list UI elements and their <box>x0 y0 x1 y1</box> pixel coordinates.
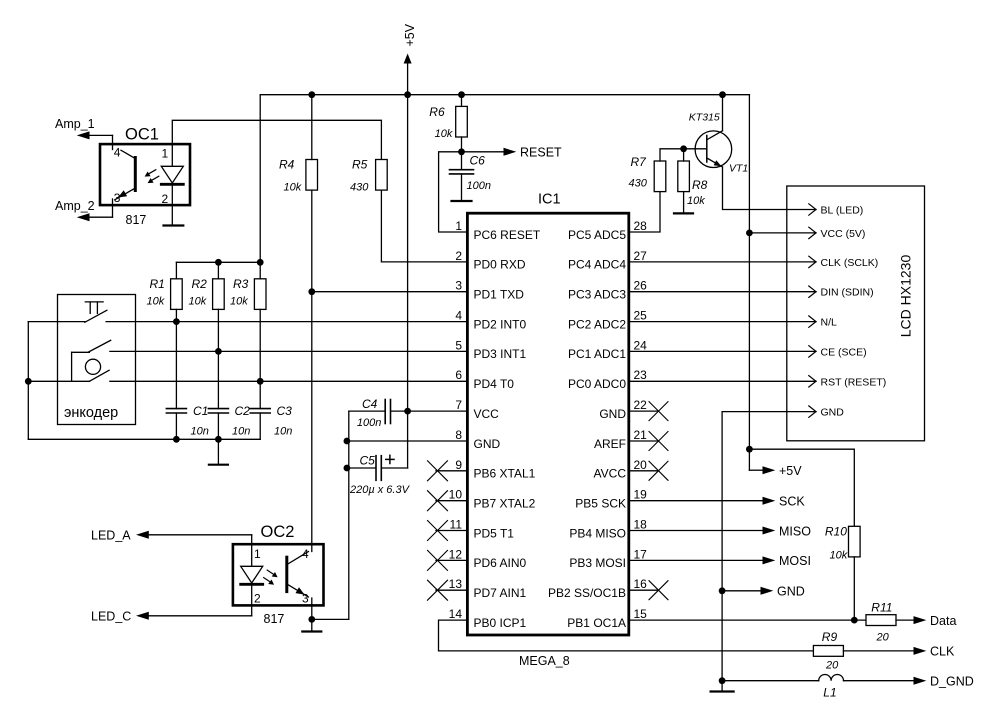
wire OC2 pin2 down to LED_C <box>251 585 253 616</box>
wire R4 column (rail to OC2 pin4) <box>311 95 313 552</box>
resistor R7 <box>654 161 666 192</box>
svg-text:R3: R3 <box>233 277 249 291</box>
svg-text:22: 22 <box>634 398 648 412</box>
svg-text:12: 12 <box>449 547 463 561</box>
wire OC2 pin3 to ground junction <box>312 598 349 619</box>
resistor R11 <box>866 615 896 626</box>
svg-text:26: 26 <box>634 279 648 293</box>
wire RESET node to IC pin1 <box>439 152 468 232</box>
IC1 pin 12 PD6 AIN0 <box>428 547 527 570</box>
wire R6 bottom to RESET node <box>461 137 463 152</box>
IC1 pin 17 PB3 MOSI <box>569 547 647 570</box>
svg-text:10k: 10k <box>687 195 705 207</box>
svg-text:1: 1 <box>162 147 169 161</box>
wire R4 bottom junction to IC pin3 <box>312 291 468 293</box>
svg-text:2: 2 <box>162 192 169 206</box>
wire encoder contact B row to IC pin6 <box>110 380 468 382</box>
svg-text:VCC (5V): VCC (5V) <box>821 228 866 240</box>
IC1 pin 23 PC0 ADC0 <box>568 368 647 391</box>
svg-text:RESET: RESET <box>520 146 562 160</box>
wire LCD GND to ground column <box>722 411 816 413</box>
wire C4 left lead down to GND column <box>348 411 350 619</box>
svg-text:10k: 10k <box>284 182 302 194</box>
svg-text:10k: 10k <box>147 296 165 308</box>
node CLK <box>843 645 955 659</box>
IC1 pin 7 VCC <box>455 398 499 421</box>
svg-text:Data: Data <box>930 614 956 628</box>
wire OC1 pin1 up and right to R5 top <box>172 120 381 166</box>
svg-text:100n: 100n <box>467 180 491 192</box>
svg-text:PB1 OC1A: PB1 OC1A <box>567 616 626 630</box>
svg-text:PC2 ADC2: PC2 ADC2 <box>568 317 626 331</box>
svg-text:PC1 ADC1: PC1 ADC1 <box>568 347 626 361</box>
wire D_GND line left <box>722 680 819 682</box>
OC1 phototransistor <box>115 150 136 200</box>
svg-text:C3: C3 <box>277 404 293 418</box>
svg-text:20: 20 <box>876 632 890 644</box>
svg-text:R10: R10 <box>825 525 847 539</box>
svg-text:817: 817 <box>264 612 285 626</box>
svg-text:5: 5 <box>455 338 462 352</box>
wire IC pin24 to LCD CE <box>629 350 816 352</box>
wire encoder ground row y=439.3 <box>28 438 260 440</box>
IC1 pin 21 AREF <box>594 428 668 451</box>
resistor R9 <box>813 646 843 657</box>
wire left ground column x=28.3 <box>27 322 29 440</box>
svg-text:R4: R4 <box>279 158 295 172</box>
svg-text:PD1 TXD: PD1 TXD <box>474 288 525 302</box>
svg-text:C2: C2 <box>235 404 251 418</box>
node Data <box>896 614 956 628</box>
IC1 pin 10 PB7 XTAL2 <box>428 488 536 511</box>
svg-text:R6: R6 <box>429 105 445 119</box>
svg-text:13: 13 <box>449 577 463 591</box>
svg-text:20: 20 <box>634 458 648 472</box>
svg-text:16: 16 <box>634 577 648 591</box>
wire IC pin8 GND row <box>347 440 468 442</box>
resistor R2 <box>213 279 225 310</box>
svg-text:GND: GND <box>474 437 501 451</box>
svg-text:PD6 AIN0: PD6 AIN0 <box>474 556 527 570</box>
svg-text:27: 27 <box>634 249 648 263</box>
svg-text:AREF: AREF <box>594 437 626 451</box>
svg-text:23: 23 <box>634 368 648 382</box>
wire R2 column <box>217 262 219 439</box>
svg-text:PB7 XTAL2: PB7 XTAL2 <box>474 497 536 511</box>
node MOSI <box>629 554 811 568</box>
svg-text:BL (LED): BL (LED) <box>821 205 864 217</box>
IC1 pin 3 PD1 TXD <box>455 279 524 302</box>
svg-text:PB4 MISO: PB4 MISO <box>569 526 626 540</box>
svg-text:VT1: VT1 <box>729 163 748 175</box>
encoder push-button contact <box>85 302 107 322</box>
svg-text:OC2: OC2 <box>261 523 295 541</box>
svg-text:AVCC: AVCC <box>594 467 627 481</box>
svg-text:10n: 10n <box>232 426 250 438</box>
resistor R4 <box>306 160 318 191</box>
wire IC pin7 to +5V column <box>408 410 468 412</box>
svg-text:11: 11 <box>450 518 463 532</box>
svg-text:PB6 XTAL1: PB6 XTAL1 <box>474 467 536 481</box>
svg-text:9: 9 <box>455 458 462 472</box>
svg-text:PB5 SCK: PB5 SCK <box>575 497 626 511</box>
svg-text:10k: 10k <box>830 550 848 562</box>
svg-text:PC5 ADC5: PC5 ADC5 <box>568 228 626 242</box>
svg-text:R5: R5 <box>352 158 368 172</box>
LCD pin CLK (SCLK) open arrow <box>809 256 878 269</box>
IC1 pin 18 PB4 MISO <box>569 518 647 541</box>
svg-text:R9: R9 <box>822 630 838 644</box>
ground below C6 <box>452 200 472 202</box>
wire VT1 emitter to LCD BL <box>723 167 817 210</box>
wire right ground column x=722.1 <box>721 412 723 681</box>
ground below OC1 <box>164 224 184 226</box>
IC1 pin 14 PB0 ICP1 <box>449 607 527 630</box>
svg-text:PD5 T1: PD5 T1 <box>474 526 515 540</box>
svg-text:SCK: SCK <box>779 495 805 509</box>
svg-text:MOSI: MOSI <box>779 554 811 568</box>
wire VT1 collector to rail <box>722 95 724 131</box>
svg-text:10: 10 <box>449 488 463 502</box>
wire R7 top to base line <box>660 149 707 161</box>
LCD pin GND open arrow <box>809 406 844 419</box>
IC1 pin 25 PC2 ADC2 <box>568 309 647 332</box>
wire R3 column <box>259 262 261 439</box>
svg-text:10n: 10n <box>274 426 292 438</box>
IC1 pin 2 PD0 RXD <box>455 249 526 272</box>
svg-text:PD4 T0: PD4 T0 <box>474 377 515 391</box>
LCD pin BL (LED) open arrow <box>809 204 863 217</box>
svg-text:4: 4 <box>114 146 121 160</box>
IC1 pin 26 PC3 ADC3 <box>568 279 647 302</box>
svg-text:PD0 RXD: PD0 RXD <box>474 258 526 272</box>
wire encoder contact A to IC pin5 <box>110 350 468 352</box>
svg-text:DIN (SDIN): DIN (SDIN) <box>821 287 874 299</box>
wire IC pin23 to LCD RST <box>629 380 816 382</box>
+5V power symbol top <box>403 23 417 94</box>
svg-text:+5V: +5V <box>779 464 802 478</box>
node Amp_2 <box>55 199 113 221</box>
LCD pin CE (SCE) open arrow <box>809 346 867 359</box>
wire OC1 pin2 to ground <box>171 186 173 226</box>
svg-text:430: 430 <box>629 178 648 190</box>
wire OC2 pin1 up to LED_A <box>251 535 253 567</box>
svg-text:220µ x 6.3V: 220µ x 6.3V <box>349 484 411 496</box>
svg-text:430: 430 <box>350 182 369 194</box>
svg-text:Amp_1: Amp_1 <box>55 117 95 131</box>
svg-text:CE (SCE): CE (SCE) <box>821 346 867 358</box>
svg-text:2: 2 <box>254 592 261 606</box>
svg-text:14: 14 <box>449 607 463 621</box>
IC1 pin 1 PC6 RESET <box>455 219 541 242</box>
svg-text:C6: C6 <box>470 154 486 168</box>
svg-text:817: 817 <box>126 213 147 227</box>
svg-text:100n: 100n <box>357 417 381 429</box>
resistor R1 <box>171 279 183 310</box>
svg-text:24: 24 <box>634 338 648 352</box>
svg-text:PD3 INT1: PD3 INT1 <box>474 347 527 361</box>
node D_GND <box>844 675 974 689</box>
svg-text:L1: L1 <box>823 685 836 699</box>
svg-text:PB0 ICP1: PB0 ICP1 <box>474 616 527 630</box>
optocoupler OC1 box <box>100 144 190 205</box>
svg-text:CLK: CLK <box>930 645 955 659</box>
IC1 pin 19 PB5 SCK <box>575 488 647 511</box>
svg-text:GND: GND <box>821 407 845 419</box>
encoder rotary contact A <box>89 340 111 352</box>
IC1 pin 6 PD4 T0 <box>455 368 514 391</box>
wire +5V column x=407.6 <box>407 95 409 411</box>
svg-text:MEGA_8: MEGA_8 <box>519 654 570 668</box>
capacitor C6 <box>450 152 474 201</box>
resistor R10 <box>849 526 861 557</box>
svg-text:4: 4 <box>455 309 462 323</box>
svg-text:LED_C: LED_C <box>91 610 131 624</box>
svg-text:8: 8 <box>455 428 462 442</box>
LCD pin VCC (5V) open arrow <box>809 227 866 240</box>
svg-text:PB2 SS/OC1B: PB2 SS/OC1B <box>548 586 626 600</box>
svg-text:N/L: N/L <box>821 317 838 329</box>
svg-text:10k: 10k <box>230 296 248 308</box>
wire IC pin15 to R11 (Data line) <box>629 619 866 621</box>
svg-text:R11: R11 <box>871 600 892 614</box>
ground below R8 <box>674 212 693 214</box>
wire R8 top <box>683 149 685 161</box>
svg-text:18: 18 <box>634 518 648 532</box>
resistor R5 <box>376 160 388 191</box>
encoder shaft circle <box>85 359 100 374</box>
ground below D_GND junction <box>711 681 734 692</box>
svg-text:19: 19 <box>634 488 648 502</box>
wire encoder button right lead to IC pin4 <box>106 321 467 323</box>
wire +5V rail corner down to R1R2R3 top line (x=260.2 column upper) <box>259 95 261 263</box>
svg-text:PD7 AIN1: PD7 AIN1 <box>474 586 527 600</box>
svg-text:энкодер: энкодер <box>64 405 118 421</box>
optocoupler OC2 box <box>233 544 324 605</box>
IC1 pin 27 PC4 ADC4 <box>568 249 647 272</box>
wire R6 top to rail <box>461 95 463 107</box>
IC1 pin 8 GND <box>455 428 500 451</box>
svg-text:PC6 RESET: PC6 RESET <box>474 228 541 242</box>
C5 plus sign <box>386 455 394 463</box>
OC1 light arrows <box>145 170 159 183</box>
inductor L1 <box>819 675 844 681</box>
svg-text:10n: 10n <box>191 426 209 438</box>
wire C5 right lead up to pin7 node <box>407 411 409 468</box>
svg-text:VCC: VCC <box>474 407 500 421</box>
wire R1 R2 R3 top line y=262.3 <box>176 261 260 263</box>
wire encoder common to left column <box>28 380 89 382</box>
LCD pin DIN (SDIN) open arrow <box>809 286 874 299</box>
IC1 pin 11 PD5 T1 <box>428 518 515 541</box>
capacitor C3 <box>250 409 270 413</box>
svg-text:OC1: OC1 <box>125 126 159 144</box>
svg-text:PD2 INT0: PD2 INT0 <box>474 317 527 331</box>
IC1 pin 15 PB1 OC1A <box>567 607 647 630</box>
op-amp U1 IC1 ATmega8 box <box>467 213 628 635</box>
svg-text:KT315: KT315 <box>689 111 720 123</box>
node +5V (right) <box>749 464 802 478</box>
wire IC pin14 down to CLK line <box>439 620 814 651</box>
wire LCD VCC from +5V column <box>749 232 816 234</box>
node LED_A <box>91 529 252 543</box>
svg-text:PC3 ADC3: PC3 ADC3 <box>568 288 626 302</box>
ground below OC2 <box>302 619 321 631</box>
encoder rotary contact B <box>89 370 109 381</box>
svg-text:GND: GND <box>599 407 626 421</box>
OC2 phototransistor <box>287 552 309 598</box>
OC2 light arrows <box>264 570 278 585</box>
OC2 LED <box>241 566 263 584</box>
svg-text:7: 7 <box>455 398 462 412</box>
svg-text:IC1: IC1 <box>538 192 561 208</box>
svg-text:R2: R2 <box>192 277 208 291</box>
svg-text:MISO: MISO <box>779 524 811 538</box>
wire +5V right column x=749.4 <box>748 95 750 471</box>
wire +5V node to R10 top <box>749 449 854 526</box>
IC1 pin 13 PD7 AIN1 <box>428 577 527 600</box>
node LED_C <box>91 610 252 624</box>
encoder rotary common bar <box>72 352 90 381</box>
IC1 pin 5 PD3 INT1 <box>455 338 526 361</box>
OC1 LED <box>161 166 183 184</box>
ground below C2 <box>209 439 228 464</box>
svg-text:PC0 ADC0: PC0 ADC0 <box>568 377 626 391</box>
svg-text:R1: R1 <box>150 277 165 291</box>
svg-text:PB3 MOSI: PB3 MOSI <box>569 556 626 570</box>
svg-text:25: 25 <box>634 309 648 323</box>
svg-text:15: 15 <box>634 607 648 621</box>
IC1 pin 24 PC1 ADC1 <box>568 338 647 361</box>
IC1 pin 20 AVCC <box>594 458 668 481</box>
svg-text:LED_A: LED_A <box>91 529 131 543</box>
capacitor C2 <box>208 409 228 413</box>
svg-text:PC4 ADC4: PC4 ADC4 <box>568 258 626 272</box>
svg-text:+5V: +5V <box>403 23 417 46</box>
IC1 pin 22 GND <box>599 398 668 421</box>
svg-text:6: 6 <box>455 368 462 382</box>
node SCK <box>629 495 806 509</box>
svg-text:GND: GND <box>777 585 805 599</box>
svg-text:1: 1 <box>455 219 462 233</box>
svg-text:C1: C1 <box>193 404 208 418</box>
svg-text:2: 2 <box>455 249 462 263</box>
svg-text:CLK (SCLK): CLK (SCLK) <box>821 257 879 269</box>
svg-text:10k: 10k <box>189 296 207 308</box>
resistor R6 <box>456 106 468 137</box>
wire OC1 pin3 to Amp_2 <box>112 199 114 217</box>
svg-text:R8: R8 <box>692 178 708 192</box>
wire IC pin25 to LCD N/L <box>629 321 816 323</box>
wire encoder button left lead to ground column <box>28 321 85 323</box>
svg-text:21: 21 <box>634 428 648 442</box>
IC1 pin 16 PB2 SS/OC1B <box>548 577 668 600</box>
svg-text:20: 20 <box>825 660 839 672</box>
svg-text:C5: C5 <box>360 453 376 467</box>
IC1 pin 28 PC5 ADC5 <box>568 219 647 242</box>
wire R5 bottom to IC pin2 row <box>381 190 467 262</box>
transistor Q1 VT1 KT315 <box>695 131 732 168</box>
resistor R8 <box>678 161 690 192</box>
wire R10 bottom to Data line <box>853 557 855 620</box>
svg-text:Amp_2: Amp_2 <box>55 199 95 213</box>
wire OC1 pin4 to Amp_1 <box>112 135 114 149</box>
LCD pin RST (RESET) open arrow <box>809 376 886 389</box>
svg-text:LCD HX1230: LCD HX1230 <box>898 255 914 338</box>
node GND (arrow) <box>722 585 805 599</box>
svg-text:1: 1 <box>254 547 261 561</box>
svg-text:RST (RESET): RST (RESET) <box>821 376 887 388</box>
encoder box <box>58 295 136 425</box>
node MISO <box>629 524 811 538</box>
LCD HX1230 box <box>787 186 925 441</box>
svg-text:17: 17 <box>634 547 648 561</box>
svg-text:C4: C4 <box>362 397 378 411</box>
IC1 pin 9 PB6 XTAL1 <box>428 458 536 481</box>
svg-text:R7: R7 <box>631 155 648 169</box>
wire R1 column <box>175 262 177 439</box>
capacitor C1 <box>166 409 186 413</box>
svg-text:10k: 10k <box>435 128 453 140</box>
svg-text:D_GND: D_GND <box>930 675 974 689</box>
node Amp_1 <box>55 117 113 139</box>
wire IC pin27 to LCD CLK <box>629 261 816 263</box>
capacitor C5 (electrolytic) <box>347 456 408 481</box>
resistor R3 <box>254 279 266 310</box>
wire IC pin26 to LCD DIN <box>629 291 816 293</box>
node RESET <box>462 146 563 160</box>
wire R7 bottom to IC pin28 <box>629 192 660 232</box>
LCD pin N/L open arrow <box>809 316 837 329</box>
wire R8 bottom to ground <box>683 192 685 213</box>
svg-text:28: 28 <box>634 219 648 233</box>
capacitor C4 <box>349 400 408 424</box>
IC1 pin 4 PD2 INT0 <box>455 309 526 332</box>
svg-text:3: 3 <box>455 279 462 293</box>
wire +5V rail y=94.7 <box>260 94 749 96</box>
